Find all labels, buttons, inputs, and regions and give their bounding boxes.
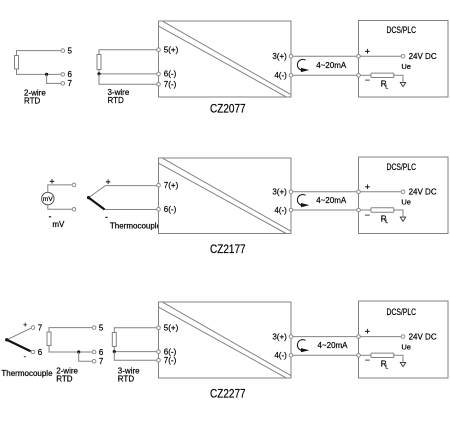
pin 4(-): [274, 206, 292, 215]
current loop arrow: [297, 195, 309, 208]
pin 6(-): [157, 347, 177, 356]
node 24V DC: [401, 333, 437, 342]
terminal 5: [92, 323, 104, 332]
svg-text:L: L: [385, 84, 388, 90]
svg-text:24V DC: 24V DC: [409, 52, 437, 61]
wire: [99, 50, 157, 55]
wire: [48, 185, 72, 193]
wire: [394, 210, 403, 217]
source mV: [42, 192, 54, 204]
pin 6(-): [157, 70, 177, 79]
terminal 5: [61, 46, 73, 55]
svg-text:4~20mA: 4~20mA: [316, 61, 347, 70]
svg-text:4~20mA: 4~20mA: [318, 341, 349, 350]
svg-text:Thermocouple: Thermocouple: [1, 369, 53, 378]
wire: [114, 328, 157, 333]
svg-text:-: -: [49, 212, 52, 222]
terminal 6: [61, 70, 73, 79]
node 24V DC: [401, 188, 437, 197]
svg-text:4(-): 4(-): [274, 71, 287, 80]
converter U1 CZ2077 box: [159, 21, 292, 97]
pin 7(+): [157, 181, 179, 190]
svg-text:−: −: [365, 75, 370, 85]
wire: [360, 354, 371, 356]
svg-text:6: 6: [99, 348, 104, 357]
svg-text:Ue: Ue: [401, 342, 411, 351]
svg-text:Ue: Ue: [401, 62, 411, 71]
svg-text:3(+): 3(+): [272, 332, 287, 341]
wire: [17, 69, 62, 74]
resistor RTD element (2-wire RTD): [15, 56, 19, 70]
svg-text:7(-): 7(-): [164, 80, 177, 89]
pin 5(+): [157, 46, 179, 55]
terminal +: [357, 46, 370, 58]
label 2-wire RTD: [56, 367, 78, 384]
converter U3 CZ2277 box: [159, 302, 292, 378]
svg-text:7(+): 7(+): [164, 181, 179, 190]
svg-text:mV: mV: [52, 220, 65, 229]
DCS/PLC box: [359, 157, 449, 234]
wire: [17, 51, 62, 56]
label Thermocouple: [1, 369, 53, 378]
pin 3(+): [272, 332, 292, 341]
svg-text:24V DC: 24V DC: [409, 333, 437, 342]
svg-text:DCS/PLC: DCS/PLC: [387, 25, 417, 35]
pin 7(-): [157, 356, 177, 365]
pin 3(+): [272, 52, 292, 61]
label CZ2077: [210, 102, 246, 116]
pin 4(-): [274, 71, 292, 80]
junction: [97, 72, 100, 75]
label CZ2277: [210, 386, 246, 400]
DCS/PLC box: [359, 301, 449, 378]
converter diagonal marking: [159, 302, 291, 378]
svg-text:6(-): 6(-): [164, 205, 177, 214]
wire: [293, 354, 357, 356]
terminal -: [357, 74, 370, 86]
thermocouple - leg (thick): [7, 340, 31, 352]
thermocouple - leg (thick): [89, 198, 157, 210]
terminal 7: [92, 357, 104, 366]
wire: [49, 346, 92, 353]
terminal 7: [31, 323, 43, 332]
label 4~20mA: [316, 61, 347, 70]
label 2-wire RTD: [24, 88, 46, 105]
svg-text:7: 7: [38, 323, 43, 332]
svg-text:6(-): 6(-): [164, 70, 177, 79]
wire: [293, 209, 357, 211]
svg-text:7(-): 7(-): [164, 356, 177, 365]
wire: [114, 347, 157, 352]
terminal +: [357, 182, 370, 194]
svg-text:−: −: [365, 355, 370, 365]
converter U2 CZ2177 box: [159, 158, 292, 234]
label Ue: [401, 62, 411, 71]
wire: [360, 55, 401, 57]
label -: [105, 212, 108, 222]
svg-text:4(-): 4(-): [274, 351, 287, 360]
wire: [293, 74, 357, 76]
thermocouple + leg: [89, 186, 157, 198]
label DCS/PLC: [387, 307, 417, 317]
wire: [99, 74, 157, 84]
pin 6(-): [157, 205, 177, 214]
svg-text:7: 7: [99, 357, 104, 366]
ground: [400, 362, 405, 366]
label DCS/PLC: [387, 25, 417, 35]
wire: [394, 355, 403, 362]
svg-text:3(+): 3(+): [272, 188, 287, 197]
svg-text:CZ2277: CZ2277: [210, 386, 246, 400]
svg-text:L: L: [385, 219, 388, 225]
svg-text:-: -: [105, 212, 108, 222]
label Ue: [401, 342, 411, 351]
wire: [114, 352, 157, 361]
pin 4(-): [274, 351, 292, 360]
wire: [360, 209, 371, 211]
svg-text:6: 6: [38, 348, 43, 357]
terminal mV -: [72, 208, 76, 212]
svg-text:RTD: RTD: [24, 96, 41, 105]
wire: [293, 336, 357, 338]
current loop arrow: [297, 340, 309, 353]
pin 5(+): [157, 324, 179, 333]
svg-text:Ue: Ue: [401, 198, 411, 207]
ground: [400, 82, 405, 86]
DCS/PLC box: [359, 21, 449, 98]
junction: [45, 73, 48, 76]
svg-text:+: +: [23, 322, 27, 329]
label Thermocouple: [110, 222, 162, 231]
svg-text:RTD: RTD: [108, 96, 125, 105]
thermocouple junction: [5, 338, 8, 341]
node 24V DC: [401, 52, 437, 61]
svg-text:5(+): 5(+): [164, 46, 179, 55]
resistor RTD element (3-wire RTD): [112, 333, 116, 347]
svg-text:+: +: [49, 177, 54, 187]
ground: [400, 217, 405, 221]
svg-text:5(+): 5(+): [164, 324, 179, 333]
terminal -: [357, 354, 370, 366]
resistor RL: [371, 208, 394, 225]
label 3-wire RTD: [118, 367, 140, 384]
wire: [48, 205, 72, 210]
svg-text:mV: mV: [43, 196, 53, 203]
label +: [105, 177, 110, 187]
label +: [23, 322, 27, 329]
wire: [360, 74, 371, 76]
wire: [360, 191, 401, 193]
label -: [49, 212, 52, 222]
terminal 6: [92, 348, 104, 357]
wire: [293, 191, 357, 193]
svg-text:CZ2177: CZ2177: [210, 242, 246, 256]
terminal mV +: [72, 183, 76, 187]
svg-text:3(+): 3(+): [272, 52, 287, 61]
svg-text:+: +: [365, 46, 370, 56]
label CZ2177: [210, 242, 246, 256]
svg-text:+: +: [365, 327, 370, 337]
svg-text:DCS/PLC: DCS/PLC: [387, 162, 417, 172]
wire: [49, 328, 92, 332]
svg-text:6: 6: [68, 70, 73, 79]
junction: [77, 350, 80, 353]
svg-text:DCS/PLC: DCS/PLC: [387, 307, 417, 317]
svg-text:4~20mA: 4~20mA: [316, 196, 347, 205]
svg-text:L: L: [385, 364, 388, 370]
terminal -: [357, 208, 370, 220]
wire: [79, 352, 93, 361]
pin 3(+): [272, 188, 292, 197]
svg-text:CZ2077: CZ2077: [210, 102, 246, 116]
label DCS/PLC: [387, 162, 417, 172]
thermocouple junction: [87, 196, 90, 199]
svg-text:−: −: [365, 210, 370, 220]
label 3-wire RTD: [108, 88, 130, 105]
wire: [99, 70, 157, 74]
label 4~20mA: [318, 341, 349, 350]
converter diagonal marking: [159, 158, 291, 233]
thermocouple + leg: [7, 328, 32, 340]
svg-text:24V DC: 24V DC: [409, 188, 437, 197]
converter diagonal marking: [159, 21, 291, 97]
svg-text:5: 5: [99, 323, 104, 332]
label -: [24, 354, 27, 361]
label +: [49, 177, 54, 187]
svg-text:+: +: [105, 177, 110, 187]
resistor RL: [371, 353, 394, 370]
resistor RL: [371, 73, 394, 90]
wire: [360, 336, 401, 338]
svg-text:7: 7: [68, 79, 73, 88]
resistor RTD element (2-wire RTD): [47, 332, 51, 346]
label 4~20mA: [316, 196, 347, 205]
label Ue: [401, 198, 411, 207]
resistor RTD element (3-wire RTD): [97, 55, 101, 70]
wire: [293, 55, 357, 57]
svg-text:5: 5: [68, 46, 73, 55]
current loop arrow: [297, 59, 309, 72]
wire: [47, 74, 61, 83]
svg-text:Thermocouple: Thermocouple: [110, 222, 162, 231]
label mV: [52, 220, 65, 229]
svg-text:RTD: RTD: [56, 375, 73, 384]
wire: [394, 75, 403, 82]
pin 7(-): [157, 80, 177, 89]
terminal +: [357, 327, 370, 339]
svg-text:4(-): 4(-): [274, 206, 287, 215]
svg-text:+: +: [365, 182, 370, 192]
terminal 6: [31, 348, 43, 357]
junction: [113, 350, 116, 353]
svg-text:RTD: RTD: [118, 375, 135, 384]
terminal 7: [61, 79, 73, 88]
